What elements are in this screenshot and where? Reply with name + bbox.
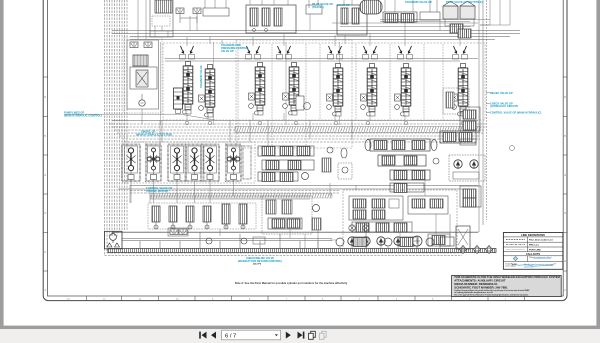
svg-text:SOLENOID VALVE: SOLENOID VALVE [199, 65, 203, 88]
svg-text:(HYDRAULIC CIRCUIT): (HYDRAULIC CIRCUIT) [490, 104, 518, 108]
svg-text:CALLOUTS: CALLOUTS [526, 252, 540, 256]
svg-text:Pilot, Drain and/or Line: Pilot, Drain and/or Line [529, 239, 554, 242]
svg-text:PORT LINE: PORT LINE [529, 249, 541, 251]
svg-text:(MAKEUP FOR RETURN CONTROL): (MAKEUP FOR RETURN CONTROL) [238, 259, 282, 263]
svg-text:PILOT VALVE GP (JOYSTICK): PILOT VALVE GP (JOYSTICK) [446, 0, 483, 4]
svg-text:(TRAVEL): (TRAVEL) [312, 5, 324, 9]
svg-text:(TRAVEL MOTOR): (TRAVEL MOTOR) [146, 189, 168, 193]
svg-text:249-7P5: 249-7P5 [253, 262, 262, 265]
svg-text:CONTROL VALVE GP (MAIN HYDRAUL: CONTROL VALVE GP (MAIN HYDRAULIC) [490, 111, 541, 115]
svg-text:RELIEF VALVE GP: RELIEF VALVE GP [490, 91, 513, 95]
svg-text:6 / 7: 6 / 7 [225, 333, 236, 339]
svg-text:information: information [524, 265, 533, 268]
svg-text:Line Callout: Line Callout [506, 265, 516, 268]
svg-text:PMC Line: PMC Line [529, 245, 540, 247]
svg-text:(MAIN HYDRAULIC SYSTEM): (MAIN HYDRAULIC SYSTEM) [136, 133, 172, 137]
svg-text:See in the appendix Service Ma: See in the appendix Service Manual for T… [454, 293, 529, 296]
svg-text:SOLENOID VALVE GP: SOLENOID VALVE GP [405, 0, 432, 4]
svg-text:Note A: See the Parts Manual f: Note A: See the Parts Manual for possibl… [235, 281, 348, 285]
svg-text:VALVE GP: VALVE GP [221, 49, 234, 53]
svg-text:VALVE GP: VALVE GP [337, 3, 350, 7]
svg-text:(MAIN HYDRAULIC CONTROL): (MAIN HYDRAULIC CONTROL) [64, 114, 102, 118]
svg-text:LINE DEFINITIONS: LINE DEFINITIONS [521, 233, 545, 237]
